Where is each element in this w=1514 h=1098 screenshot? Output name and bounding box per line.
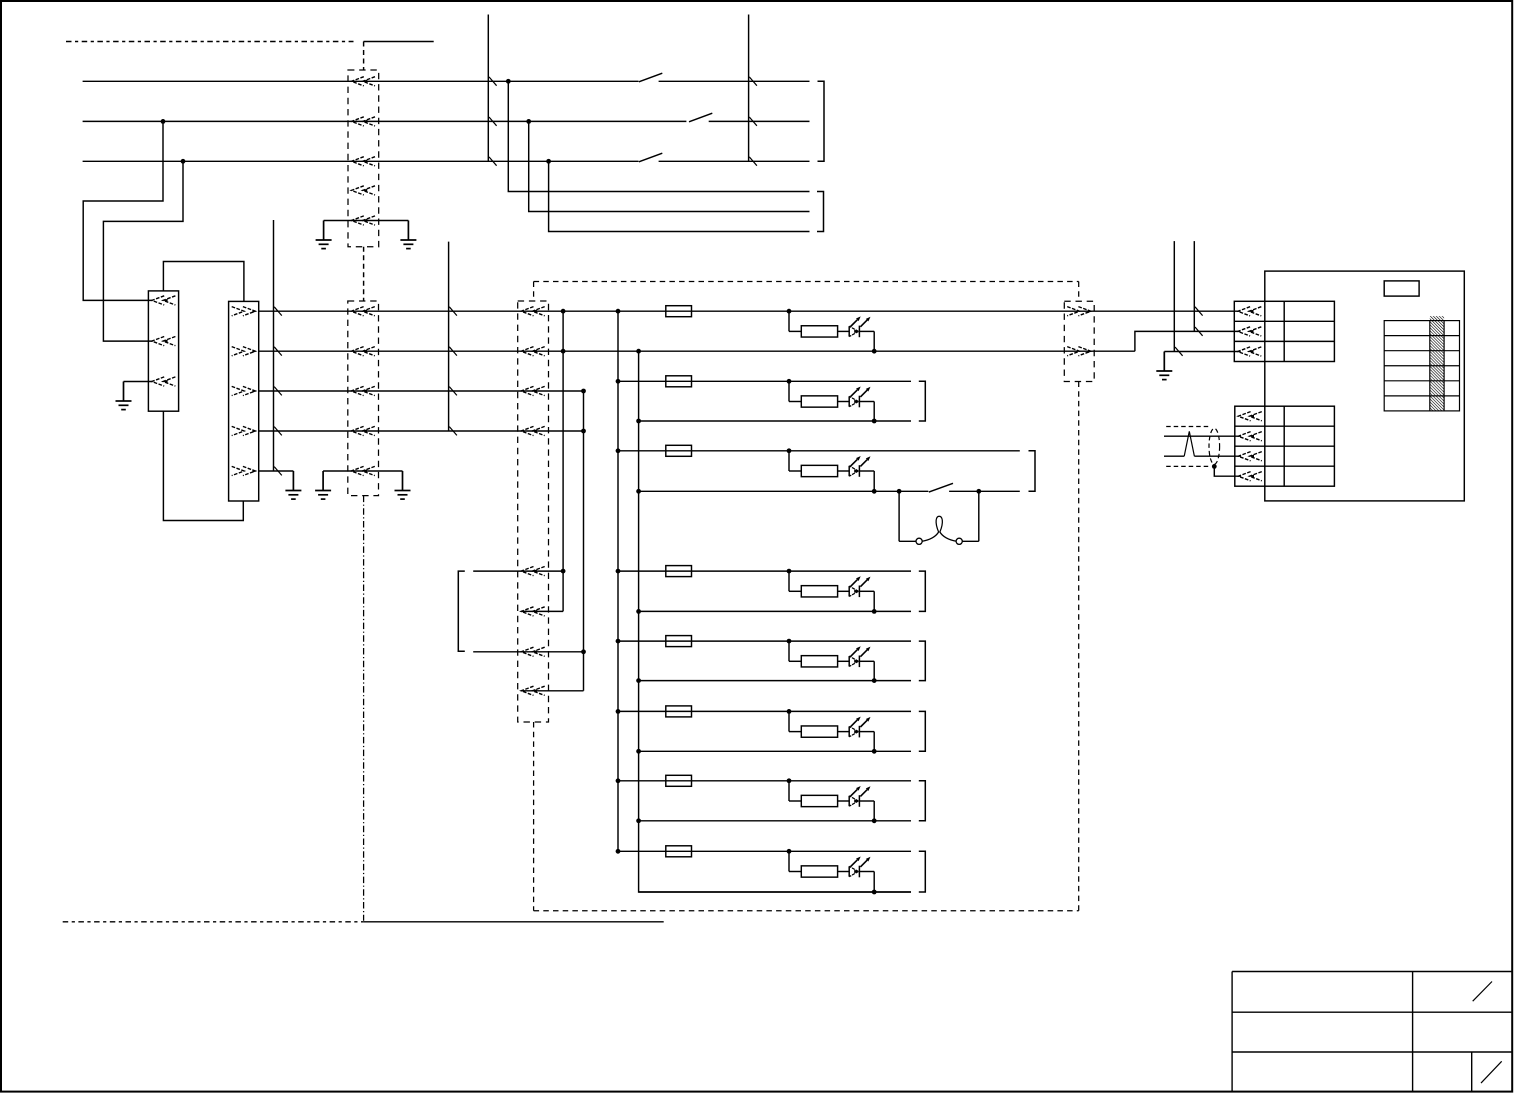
wire X2 pin5 grounds xyxy=(323,470,402,472)
X3 pin 5 xyxy=(521,567,545,576)
node bus A ch5 xyxy=(616,639,621,644)
opto module D6/R6 xyxy=(787,709,792,714)
wire net N1 (fuse bus feed) xyxy=(259,310,1241,312)
wire J2 to X4 pin2 xyxy=(103,161,183,341)
opto module D4/R4 xyxy=(787,569,792,574)
title block xyxy=(1232,972,1512,1092)
ground GND2 xyxy=(400,221,416,249)
wire net N4 xyxy=(259,430,584,432)
ground GND3 xyxy=(116,382,132,410)
boundary rail top (dash-dot) xyxy=(66,41,354,43)
X3 pin 3 xyxy=(521,386,545,395)
node on N1 xyxy=(561,309,566,314)
XB2 pin 4 xyxy=(1238,472,1262,481)
X5 pin 2 xyxy=(232,347,256,356)
boundary rail bottom (dash-dot) xyxy=(63,921,364,923)
wire J3 branch xyxy=(508,81,809,191)
X3 pin 8 xyxy=(521,686,545,695)
node J3 xyxy=(506,79,511,84)
connector X5 (5-pin) xyxy=(229,301,259,501)
instrument unit A2 outline xyxy=(1265,271,1465,501)
fuse F5 xyxy=(666,636,692,647)
XB2 pin 3 xyxy=(1238,452,1262,461)
cable bracket ch4 xyxy=(919,571,926,611)
node K2 xyxy=(976,489,981,494)
node bus B ch7 xyxy=(636,818,641,823)
X4 pin 1 xyxy=(152,296,176,305)
X5 pin 1 xyxy=(232,307,256,316)
dashed enclosure E1 left xyxy=(533,282,535,302)
node bus B ch1 xyxy=(636,349,641,354)
node bus B ch5 xyxy=(636,678,641,683)
switch S3 xyxy=(639,153,662,162)
wire ch4 fuse row xyxy=(618,570,911,572)
harness line H4 xyxy=(448,242,450,431)
X3 pin 1 xyxy=(521,307,545,316)
wire row L2 xyxy=(83,120,687,122)
wire ch6 return row xyxy=(639,750,911,752)
wire tie T2 (pins 7-8) xyxy=(473,651,583,653)
harness line H5 xyxy=(1173,241,1175,351)
cable bracket ch8 xyxy=(919,851,926,892)
horn/solenoid coil Y1 xyxy=(898,491,900,541)
sensor B1 signal wire - xyxy=(1164,455,1184,457)
X1 pin 1 xyxy=(351,77,375,86)
wire X4 pin3 to ground xyxy=(124,381,153,383)
wire ch2 fuse row xyxy=(618,380,911,382)
X2 pin 5 xyxy=(351,466,375,475)
X4 pin 2 xyxy=(152,337,176,346)
connector X6 xyxy=(1064,301,1094,381)
node bus A ch3 xyxy=(616,448,621,453)
opto module D3/R3 xyxy=(787,448,792,453)
XB1 pin 1 xyxy=(1238,307,1262,316)
cable bracket W3 xyxy=(458,571,465,651)
X5 pin 5 xyxy=(232,466,256,475)
wire J4 branch xyxy=(529,121,810,211)
X1 pin 4 xyxy=(351,186,375,195)
node bus B ch4 xyxy=(636,609,641,614)
switch S2 xyxy=(689,113,712,122)
X2 pin 3 xyxy=(351,386,375,395)
cable bracket W5 xyxy=(1029,451,1036,492)
X6 pin 2 xyxy=(1067,347,1091,356)
harness line H2 xyxy=(748,15,750,162)
sensor B1 signal wire + xyxy=(1164,435,1241,437)
X2 pin 1 xyxy=(351,307,375,316)
harness line H1 xyxy=(487,15,489,162)
fuse F6 xyxy=(666,706,692,717)
cable bracket ch5 xyxy=(919,641,926,681)
wire net N2 (return) xyxy=(259,350,1135,352)
wire ch5 return row xyxy=(639,680,911,682)
wire ch8 return row xyxy=(639,891,911,893)
X5 pin 3 xyxy=(232,386,256,395)
opto module D5/R5 xyxy=(787,639,792,644)
X5 pin 4 xyxy=(232,426,256,435)
fuse F3 xyxy=(666,445,692,456)
wire X6 pin2 to A2 (jog) xyxy=(1135,331,1241,351)
ground GND6 xyxy=(395,471,411,499)
X3 pin 2 xyxy=(521,347,545,356)
bus A (fuse feed) xyxy=(617,311,619,851)
X6 pin 1 xyxy=(1067,307,1091,316)
wire ch3 fuse row xyxy=(618,450,1020,452)
node bus A ch1 xyxy=(616,309,621,314)
wire ch4 return row xyxy=(639,610,911,612)
node bus B ch6 xyxy=(636,749,641,754)
wire X1 pin5 to grounds xyxy=(324,220,409,222)
X1 pin 3 xyxy=(351,157,375,166)
wire A1 top loop xyxy=(163,262,244,302)
dashed enclosure E1 top xyxy=(534,281,1079,283)
connector block XB2 xyxy=(1235,406,1335,486)
fuse F2 xyxy=(666,376,692,387)
fuse F7 xyxy=(666,775,692,786)
ground GND1 xyxy=(316,221,332,249)
wire J5 branch xyxy=(549,161,810,231)
X3 pin 4 xyxy=(521,426,545,435)
wire ch2 return row xyxy=(639,420,911,422)
wire ch8 fuse row xyxy=(618,850,911,852)
X2 pin 2 xyxy=(351,347,375,356)
dashed enclosure E1 right xyxy=(1078,282,1080,302)
wire ch7 fuse row xyxy=(618,780,911,782)
node bus B ch2 xyxy=(636,419,641,424)
cable bracket ch7 xyxy=(919,781,926,821)
X3 pin 6 xyxy=(521,607,545,616)
connector X4 (3-pin) xyxy=(148,291,178,411)
connector block XB1 xyxy=(1234,301,1334,361)
wire tie T1 (pins 5-6) xyxy=(473,570,563,572)
dashed enclosure E1 bottom xyxy=(534,910,1079,912)
node on N4 xyxy=(581,429,586,434)
opto module D7/R7 xyxy=(787,778,792,783)
node K1 xyxy=(897,489,902,494)
node bus A ch8 xyxy=(616,849,621,854)
cable bracket ch2 xyxy=(919,381,926,421)
node bus B ch3 xyxy=(636,489,641,494)
wire ch7 return row xyxy=(639,820,911,822)
wire net N3 xyxy=(259,390,584,392)
harness line H3 xyxy=(273,220,275,471)
X1 pin 5 xyxy=(351,216,375,225)
XB2 pin 1 xyxy=(1238,412,1262,421)
cable bracket ch6 xyxy=(919,711,926,751)
opto module D2/R2 xyxy=(787,379,792,384)
title block slash 2 xyxy=(1481,1061,1502,1083)
wire ch5 fuse row xyxy=(618,640,911,642)
bus B (return) xyxy=(639,351,911,892)
wire row L1 xyxy=(83,80,639,82)
node J5 xyxy=(546,159,551,164)
sensor B1 shield (dashed) xyxy=(1166,426,1211,428)
connector X1 xyxy=(348,70,379,247)
fuse F8 xyxy=(666,846,692,857)
node J4 xyxy=(526,119,531,124)
wire X5 pin5 to ground xyxy=(259,470,294,472)
switch S1 xyxy=(639,73,662,82)
opto module D1/R1 xyxy=(787,309,792,314)
harness line H6 xyxy=(1193,241,1195,331)
XB2 pin 2 xyxy=(1238,432,1262,441)
ground GND4 xyxy=(285,471,301,499)
wire dashed drop to connector X1 xyxy=(363,42,365,71)
switch S4 xyxy=(929,483,953,492)
wire dashed X1-X2 link xyxy=(363,247,365,301)
X4 pin 3 xyxy=(152,377,176,386)
connector X3 xyxy=(518,301,549,722)
XB1 pin 2 xyxy=(1238,327,1262,336)
wire ch6 fuse row xyxy=(618,710,911,712)
connector X2 xyxy=(348,301,379,496)
XB1 pin 3 xyxy=(1238,347,1262,356)
X3 pin 7 xyxy=(521,647,545,656)
wire J1 to X4 pin1 xyxy=(83,121,163,300)
A2 display window xyxy=(1384,281,1419,296)
node bus A ch4 xyxy=(616,569,621,574)
node J1 xyxy=(161,119,166,124)
fuse F4 xyxy=(666,566,692,577)
node bus A ch7 xyxy=(616,778,621,783)
wire shield drain to XB2 pin4 xyxy=(1214,466,1241,476)
sensor B1 pulse spike xyxy=(1184,431,1194,456)
node on N3 xyxy=(581,389,586,394)
ground GND5 xyxy=(315,471,331,499)
node shield drain xyxy=(1212,464,1217,469)
X2 pin 4 xyxy=(351,426,375,435)
wire ground to A2 pin3 xyxy=(1164,351,1240,353)
node bus A ch2 xyxy=(616,379,621,384)
boundary rail bottom solid segment xyxy=(364,921,664,923)
boundary rail top solid segment xyxy=(364,41,434,43)
ground GND7 xyxy=(1156,352,1172,380)
node bus A ch6 xyxy=(616,709,621,714)
node J2 xyxy=(181,159,186,164)
cable bracket W1 xyxy=(818,81,825,161)
cable bracket W2 xyxy=(817,192,824,232)
node on N2 xyxy=(561,349,566,354)
wire A1 bottom loop xyxy=(163,411,243,520)
opto module D8/R8 xyxy=(787,849,792,854)
wire row L3 xyxy=(83,160,639,162)
title block slash 1 xyxy=(1473,982,1492,1002)
fuse F1 xyxy=(666,306,692,317)
boundary dash-dot drop xyxy=(363,496,365,921)
wire ch3 return row xyxy=(639,490,929,492)
X1 pin 2 xyxy=(351,117,375,126)
A2 internal table with hatched column xyxy=(1430,316,1444,411)
